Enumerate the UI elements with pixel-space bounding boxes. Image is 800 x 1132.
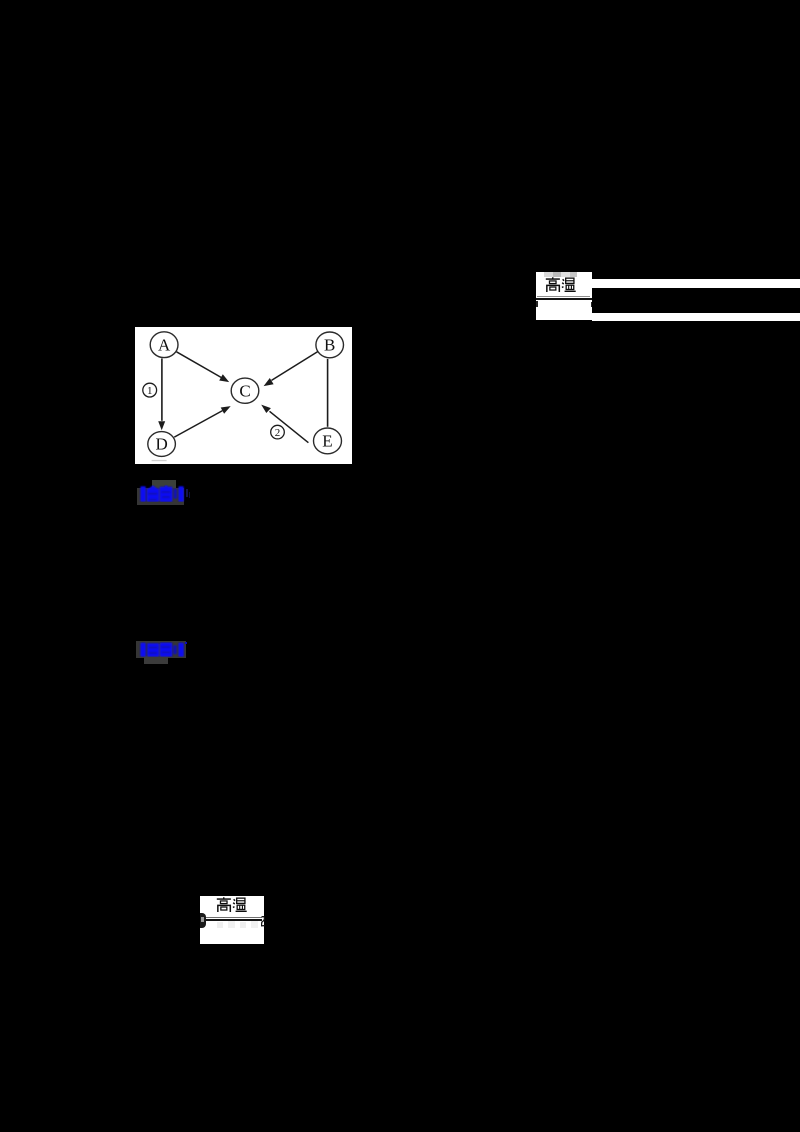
arrow D to C	[175, 410, 223, 436]
right glyph fragment	[591, 302, 592, 307]
right glyph fragment (2)	[261, 916, 265, 927]
svg-text:E: E	[323, 431, 333, 450]
node circle A	[150, 332, 178, 358]
grey antialias blocks above 高温	[544, 272, 553, 278]
white text-highlight strip 2 (below, to page edge)	[592, 313, 800, 321]
grey artifact line bottom-left	[152, 460, 167, 461]
white text-highlight strip 1 (right of 高温)	[592, 279, 800, 287]
blue header 2 (【解析】) with grey selection boxes	[136, 641, 186, 659]
node circle B	[316, 332, 344, 358]
svg-text:A: A	[158, 335, 171, 354]
faint texture under line	[217, 922, 223, 928]
arrow B to C	[272, 351, 318, 380]
svg-text:D: D	[156, 434, 168, 453]
label circled 1	[143, 383, 157, 397]
svg-text:C: C	[240, 381, 251, 400]
arrow A to D	[161, 358, 163, 420]
node circle C	[231, 378, 259, 403]
wire B to E	[327, 359, 329, 427]
node circle D	[148, 431, 176, 456]
node circle E	[314, 428, 342, 454]
arrow E to C	[270, 411, 309, 442]
left glyph fragment (dark blob)	[200, 913, 206, 928]
高温 glyphs	[216, 897, 248, 912]
label circled 2	[271, 425, 285, 439]
svg-text:1: 1	[147, 385, 153, 397]
diagram image: circles A,B,C,D,E with arrows on white box	[135, 327, 351, 465]
blue header 1 (【答案】) with grey selection boxes	[152, 480, 176, 488]
double line	[206, 917, 261, 918]
double underline	[537, 296, 591, 297]
svg-text:B: B	[324, 335, 335, 354]
arrow A to C	[177, 352, 222, 378]
faint glyph marks right of header 1	[186, 489, 188, 497]
left glyph fragment	[536, 301, 538, 307]
高温 glyphs (drawn)	[545, 277, 577, 292]
svg-text:2: 2	[275, 427, 280, 439]
top equation condition image (高温 over double line), white background	[536, 272, 592, 320]
bottom equation image: 高温 over double line with glyph fragments	[200, 896, 265, 944]
